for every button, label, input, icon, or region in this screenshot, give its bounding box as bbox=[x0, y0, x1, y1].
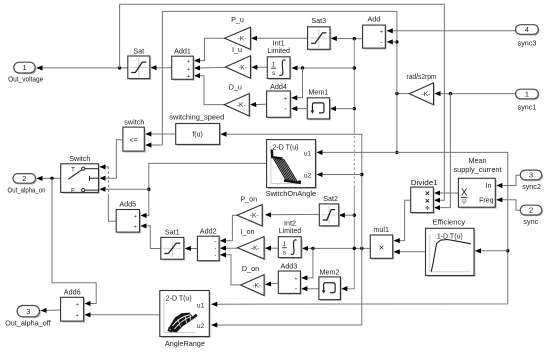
wire Int1 output to I_u input bbox=[252, 66, 267, 68]
svg-text:Add3: Add3 bbox=[281, 262, 298, 271]
wire Add output to Sat3 input bbox=[332, 37, 363, 39]
svg-text:3: 3 bbox=[26, 307, 30, 316]
svg-text:Divide1: Divide1 bbox=[411, 178, 438, 187]
wire I_u gain to Add1 input 2 bbox=[195, 66, 226, 69]
svg-text:Sat2: Sat2 bbox=[323, 194, 338, 203]
svg-text:Switch: Switch bbox=[69, 154, 90, 163]
svg-text:÷: ÷ bbox=[425, 204, 430, 213]
sum Add bbox=[364, 27, 387, 50]
svg-text:F: F bbox=[71, 187, 75, 194]
wire Add1 output to Sat input bbox=[151, 67, 172, 69]
svg-text:+: + bbox=[187, 59, 190, 65]
svg-text:-K-: -K- bbox=[422, 91, 431, 98]
svg-text:2: 2 bbox=[22, 174, 26, 183]
wire rpm branch to Add input 2 bbox=[387, 41, 397, 43]
svg-text:Sat3: Sat3 bbox=[311, 16, 326, 25]
wire Add2 output to Sat1 input bbox=[186, 248, 198, 250]
wire Add4 output to D_u input bbox=[251, 103, 267, 105]
wire I_on output to Add2 input 2 bbox=[221, 247, 238, 249]
node rpm to Efficiency branch bbox=[506, 249, 509, 252]
wire Mem1 output to Add4 input 2 bbox=[292, 108, 307, 110]
gain I_u bbox=[227, 57, 252, 80]
wire switch output to Switch control input bbox=[100, 140, 123, 178]
svg-text:f(u): f(u) bbox=[192, 132, 203, 139]
wire sync1 to rad/s2rpm input bbox=[435, 93, 515, 95]
svg-text:+: + bbox=[76, 302, 79, 308]
gain P_on bbox=[238, 206, 263, 228]
svg-text:+: + bbox=[134, 214, 137, 220]
wire power down to AngleRange u2 bbox=[212, 248, 362, 325]
svg-text:×: × bbox=[379, 242, 385, 253]
wire voltage feedback to Divide1 x input bbox=[120, 4, 445, 200]
wire P_on output to Add2 input 1 bbox=[221, 215, 237, 241]
node error to Sat2 branch bbox=[353, 214, 356, 217]
node mul1 output junction right bbox=[360, 247, 363, 250]
integrator Int1 Limited bbox=[269, 58, 292, 80]
saturation Sat1 bbox=[162, 239, 185, 261]
svg-text:Sat: Sat bbox=[133, 47, 144, 56]
wire rad/s2rpm output to rpm net bbox=[397, 93, 410, 95]
svg-text:-K-: -K- bbox=[237, 102, 246, 109]
wire Mean output to Divide1 input 1 bbox=[435, 192, 459, 194]
gain rad/s2rpm bbox=[411, 84, 435, 106]
wire D_u gain to Add1 input 3 bbox=[195, 76, 225, 105]
svg-text:Mean: Mean bbox=[469, 156, 487, 165]
svg-text:2-D T(u): 2-D T(u) bbox=[273, 145, 299, 152]
input port 1 sync1 bbox=[517, 91, 540, 101]
svg-text:Mem1: Mem1 bbox=[308, 88, 328, 97]
wire Sat3 output to P_u input bbox=[252, 37, 308, 39]
wire Add5 output to Switch T input bbox=[108, 195, 116, 221]
node error signal junction at Add output bbox=[353, 37, 356, 40]
node SwitchOnAngle output branch bbox=[147, 188, 150, 191]
gain P_u bbox=[226, 28, 252, 50]
svg-text:+: + bbox=[134, 224, 137, 230]
svg-text:u2: u2 bbox=[197, 323, 205, 330]
sum Add1 bbox=[173, 58, 195, 81]
wire Add5 output to Switch T input dashed part bbox=[107, 167, 109, 195]
svg-text:-K-: -K- bbox=[238, 64, 247, 71]
svg-text:I_on: I_on bbox=[241, 227, 255, 236]
svg-text:T: T bbox=[71, 166, 75, 173]
integrator Int2 Limited bbox=[280, 238, 303, 259]
svg-text:rad/s2rpm: rad/s2rpm bbox=[407, 72, 437, 81]
wire sync to Mean Freq input bbox=[497, 200, 520, 210]
input port 4 sync3 bbox=[517, 26, 540, 36]
wire power branch to Add3 input 1 bbox=[302, 248, 313, 278]
svg-text:3: 3 bbox=[529, 171, 533, 180]
svg-text:D_u: D_u bbox=[229, 83, 242, 92]
svg-text:Sat1: Sat1 bbox=[165, 228, 180, 237]
svg-text:AngleRange: AngleRange bbox=[165, 339, 205, 348]
wire error distribution vertical lower to Mem2 input bbox=[342, 186, 354, 289]
switch Switch bbox=[62, 165, 100, 194]
wire error to Int1 input bbox=[292, 67, 354, 69]
svg-text:supply_current: supply_current bbox=[454, 165, 502, 174]
node sync1 tap junction bbox=[449, 92, 452, 95]
lookup table AngleRange bbox=[161, 292, 211, 338]
svg-text:Add2: Add2 bbox=[200, 227, 217, 236]
node mul1 output junction left bbox=[353, 247, 356, 250]
svg-text:Mem2: Mem2 bbox=[320, 268, 340, 277]
wire rpm vertical riser bbox=[146, 11, 397, 152]
output port 1 Out_voltage bbox=[15, 64, 36, 75]
svg-text:+: + bbox=[187, 74, 190, 80]
wire mul1 output to Int2 input bbox=[303, 247, 371, 249]
svg-text:1-D T(u): 1-D T(u) bbox=[437, 233, 463, 240]
wire error branch to Mem1 input bbox=[331, 108, 355, 110]
output port 3 Out_alpha_off bbox=[18, 307, 40, 318]
node rpm to Add branch bbox=[395, 40, 398, 43]
node power to SwitchOnAngle u2 branch bbox=[360, 173, 363, 176]
svg-text:2: 2 bbox=[529, 206, 533, 215]
svg-text:sync: sync bbox=[523, 217, 538, 226]
svg-text:sync1: sync1 bbox=[518, 103, 537, 112]
multiply mul1 bbox=[372, 236, 394, 259]
gain D_on bbox=[242, 276, 266, 297]
node rpm bottom junction bbox=[395, 151, 398, 154]
wire error branch to Sat2 input bbox=[340, 214, 355, 216]
wire rpm branch to Efficiency input bbox=[476, 250, 508, 252]
wire Efficiency output to mul1 input 2 bbox=[394, 251, 425, 253]
wire sync3 to Add input 1 bbox=[387, 30, 515, 32]
svg-text:-K-: -K- bbox=[250, 213, 259, 220]
input port 3 sync2 bbox=[522, 171, 544, 181]
memory Mem1 bbox=[309, 99, 331, 120]
svg-text:1: 1 bbox=[22, 63, 26, 72]
svg-text:Limited: Limited bbox=[267, 46, 290, 55]
wire Add3 output to D_on input bbox=[266, 283, 279, 285]
svg-text:+: + bbox=[294, 276, 297, 282]
svg-text:2-D T(u): 2-D T(u) bbox=[166, 295, 192, 302]
svg-text:4: 4 bbox=[525, 25, 529, 34]
svg-text:P_on: P_on bbox=[240, 194, 257, 203]
wire Divide1 output to mul1 input 1 bbox=[394, 200, 410, 240]
wire P_u gain to Add1 input 1 bbox=[195, 38, 225, 60]
svg-text:D_on: D_on bbox=[242, 264, 259, 273]
wire Sat1 output to Add5 input 2 bbox=[141, 226, 161, 249]
svg-text:In: In bbox=[486, 183, 492, 190]
saturation Sat3 bbox=[309, 28, 331, 51]
svg-text:Add: Add bbox=[368, 14, 381, 23]
wire SwitchOnAngle output to Add5 input 1 bbox=[141, 163, 266, 215]
node rpm junction at gain output bbox=[395, 92, 398, 95]
running mean Mean supply_current bbox=[460, 180, 497, 209]
wire rpm long loop to AngleRange u1 bbox=[212, 152, 508, 304]
wire error distribution vertical dashed segment bbox=[353, 136, 355, 186]
wire D_on output to Add2 input 3 bbox=[221, 255, 241, 285]
saturation Sat2 bbox=[321, 205, 340, 227]
svg-text:sync3: sync3 bbox=[518, 38, 537, 47]
sum Add6 bbox=[62, 299, 85, 323]
svg-text:1: 1 bbox=[525, 90, 529, 99]
svg-text:Out_alpha_off: Out_alpha_off bbox=[5, 318, 51, 327]
svg-text:-K-: -K- bbox=[252, 282, 261, 289]
svg-text:1: 1 bbox=[272, 61, 276, 68]
svg-text:Out_alpha_on: Out_alpha_on bbox=[8, 186, 46, 195]
svg-text:s: s bbox=[283, 249, 286, 256]
svg-text:Freq: Freq bbox=[479, 197, 494, 204]
svg-text:Add6: Add6 bbox=[64, 288, 81, 297]
svg-text:-K-: -K- bbox=[251, 245, 260, 252]
wire power vertical riser to f(u) bbox=[221, 134, 362, 248]
svg-text:u2: u2 bbox=[304, 172, 312, 179]
svg-text:+: + bbox=[76, 313, 79, 319]
svg-text:Add1: Add1 bbox=[174, 47, 191, 56]
svg-text:sync2: sync2 bbox=[522, 182, 541, 191]
node power to Add3 branch bbox=[311, 247, 314, 250]
svg-text:<=: <= bbox=[130, 137, 138, 144]
input port 2 sync bbox=[522, 207, 544, 217]
saturation Sat bbox=[129, 57, 151, 80]
wire Sat output to Out_voltage port bbox=[37, 67, 128, 69]
wire power branch to SwitchOnAngle u2 bbox=[317, 174, 362, 176]
wire Switch T input segment bbox=[100, 166, 108, 168]
node voltage tap junction bbox=[118, 66, 121, 69]
svg-text:mul1: mul1 bbox=[373, 225, 389, 234]
gain I_on bbox=[239, 238, 266, 260]
svg-text:s: s bbox=[272, 70, 275, 77]
lookup table SwitchOnAngle bbox=[268, 141, 317, 189]
gain D_u bbox=[226, 95, 251, 118]
wire rpm to SwitchOnAngle u1 bbox=[317, 151, 397, 153]
svg-text:1: 1 bbox=[283, 241, 287, 248]
svg-text:I_u: I_u bbox=[232, 45, 242, 54]
lookup table Efficiency bbox=[427, 230, 476, 277]
wire sync1 branch to Divide1 divisor bbox=[435, 94, 451, 208]
wire Sat2 output to P_on input bbox=[266, 213, 320, 215]
node error to Mem1 branch bbox=[353, 107, 356, 110]
function switching_speed bbox=[177, 125, 221, 146]
svg-text:Add5: Add5 bbox=[119, 200, 136, 209]
svg-text:-: - bbox=[214, 238, 216, 245]
sum Add4 bbox=[268, 92, 292, 118]
svg-text:Limited: Limited bbox=[279, 226, 302, 235]
svg-text:switch: switch bbox=[124, 117, 144, 126]
divide Divide1 bbox=[412, 189, 435, 215]
svg-text:+: + bbox=[284, 96, 287, 102]
wire error branch to Add4 input 1 bbox=[292, 68, 303, 98]
node error to Int1 branch bbox=[353, 66, 356, 69]
svg-text:switching_speed: switching_speed bbox=[169, 113, 224, 122]
sum Add2 bbox=[199, 238, 221, 263]
relational operator switch bbox=[124, 129, 145, 153]
node error to Add4 branch bbox=[301, 66, 304, 69]
svg-text:Out_voltage: Out_voltage bbox=[8, 75, 43, 84]
wire angle branch to Switch F input bbox=[100, 188, 149, 190]
wire alpha_on feedback to Add6 input 1 bbox=[52, 178, 96, 303]
svg-text:Efficiency: Efficiency bbox=[433, 217, 466, 226]
sum Add3 bbox=[280, 272, 302, 294]
wire error distribution vertical upper bbox=[353, 39, 355, 134]
svg-text:P_u: P_u bbox=[231, 15, 244, 24]
svg-text:-: - bbox=[214, 252, 216, 259]
svg-text:Add4: Add4 bbox=[270, 82, 287, 91]
wire AngleRange output to Add6 input 2 bbox=[85, 314, 160, 316]
sum Add5 bbox=[118, 211, 141, 234]
svg-text:+: + bbox=[380, 30, 383, 36]
node alpha_on tap junction bbox=[50, 177, 53, 180]
wire Mem2 output to Add3 input 2 bbox=[302, 288, 319, 290]
wire Add6 output to Out_alpha_off port bbox=[41, 309, 60, 312]
svg-text:u1: u1 bbox=[304, 150, 312, 157]
output port 2 Out_alpha_on bbox=[14, 175, 37, 185]
svg-text:+: + bbox=[187, 67, 190, 73]
wire f(u) output to switch input 1 bbox=[146, 133, 176, 135]
svg-text:u1: u1 bbox=[197, 303, 205, 310]
wire Int2 output to I_on input bbox=[266, 247, 279, 249]
memory Mem2 bbox=[320, 278, 342, 301]
svg-text:-K-: -K- bbox=[238, 36, 247, 43]
wire sync2 to Mean In input bbox=[497, 175, 520, 185]
svg-text:SwitchOnAngle: SwitchOnAngle bbox=[266, 189, 317, 198]
wire Switch output to Out_alpha_on port bbox=[37, 177, 61, 179]
